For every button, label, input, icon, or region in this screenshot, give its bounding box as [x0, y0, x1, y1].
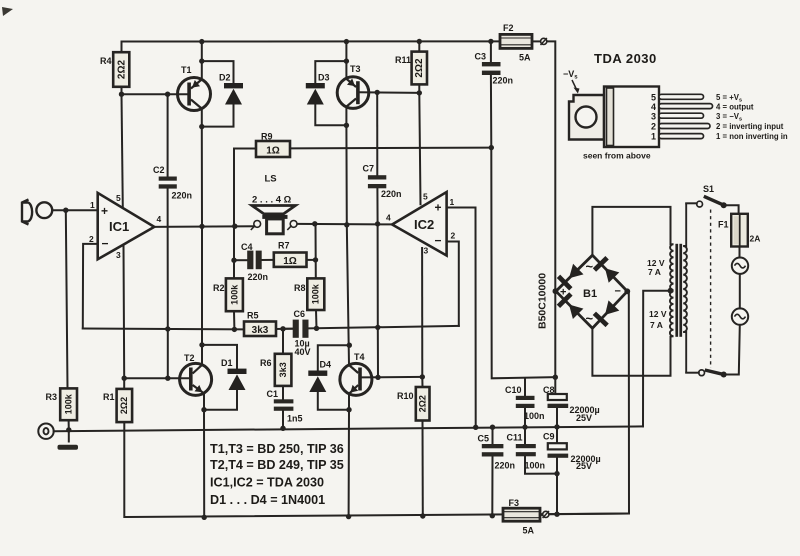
- svg-text:2Ω2: 2Ω2: [119, 397, 129, 414]
- svg-text:IC2: IC2: [414, 217, 434, 232]
- svg-text:220n: 220n: [172, 191, 193, 201]
- svg-text:~: ~: [586, 259, 594, 274]
- svg-text:25V: 25V: [576, 461, 592, 471]
- svg-text:7 A: 7 A: [648, 267, 661, 277]
- svg-text:4: 4: [157, 214, 162, 224]
- svg-text:3k3: 3k3: [278, 362, 288, 377]
- svg-text:2 . . . 4 Ω: 2 . . . 4 Ω: [252, 195, 292, 206]
- svg-text:7 A: 7 A: [650, 320, 663, 330]
- svg-text:4: 4: [651, 102, 656, 112]
- svg-text:D1: D1: [221, 358, 233, 368]
- svg-text:2Ω2: 2Ω2: [414, 58, 425, 78]
- svg-text:2: 2: [89, 234, 94, 244]
- svg-text:C9: C9: [543, 432, 555, 442]
- svg-text:3: 3: [424, 246, 429, 256]
- svg-text:R1: R1: [103, 392, 115, 402]
- svg-text:1: 1: [651, 132, 656, 142]
- svg-text:+: +: [560, 287, 566, 299]
- svg-text:−: −: [615, 286, 621, 298]
- svg-text:2 = inverting input: 2 = inverting input: [716, 122, 784, 131]
- svg-text:R8: R8: [294, 283, 306, 293]
- svg-text:5A: 5A: [519, 53, 531, 63]
- svg-text:+: +: [101, 204, 108, 218]
- svg-text:B1: B1: [583, 288, 597, 300]
- svg-text:−: −: [435, 234, 442, 248]
- svg-text:2A: 2A: [750, 234, 761, 244]
- svg-text:5A: 5A: [523, 526, 535, 536]
- svg-text:R3: R3: [46, 392, 58, 402]
- svg-text:3: 3: [651, 112, 656, 122]
- svg-text:220n: 220n: [493, 76, 514, 86]
- svg-text:S1: S1: [703, 184, 714, 194]
- svg-text:C8: C8: [543, 385, 555, 395]
- svg-text:T3: T3: [350, 64, 361, 74]
- svg-text:T1,T3 = BD 250, TIP 36: T1,T3 = BD 250, TIP 36: [210, 442, 344, 456]
- svg-text:~: ~: [586, 311, 594, 326]
- svg-text:40V: 40V: [295, 347, 311, 357]
- svg-text:C4: C4: [241, 242, 253, 252]
- svg-text:5: 5: [423, 192, 428, 202]
- svg-text:5: 5: [116, 193, 121, 203]
- svg-text:R10: R10: [397, 391, 414, 401]
- svg-text:R6: R6: [260, 358, 272, 368]
- svg-text:2: 2: [651, 122, 656, 132]
- svg-text:100n: 100n: [525, 461, 546, 471]
- svg-text:220n: 220n: [381, 189, 402, 199]
- svg-text:5: 5: [651, 93, 656, 103]
- svg-text:C7: C7: [363, 164, 375, 174]
- svg-text:C11: C11: [507, 433, 523, 443]
- svg-text:D2: D2: [219, 73, 231, 83]
- svg-text:C6: C6: [294, 309, 306, 319]
- svg-text:3k3: 3k3: [252, 325, 269, 336]
- svg-text:2: 2: [451, 231, 456, 241]
- svg-text:C3: C3: [475, 52, 487, 62]
- svg-text:2Ω2: 2Ω2: [417, 395, 427, 412]
- svg-text:TDA 2030: TDA 2030: [594, 51, 657, 66]
- svg-text:1: 1: [450, 197, 455, 207]
- svg-text:12 V: 12 V: [649, 309, 667, 319]
- svg-text:220n: 220n: [495, 461, 516, 471]
- svg-text:R2: R2: [213, 283, 225, 293]
- svg-text:4 = output: 4 = output: [716, 103, 754, 112]
- svg-text:−: −: [102, 237, 109, 251]
- svg-text:T2: T2: [184, 353, 195, 363]
- svg-text:1 = non inverting in: 1 = non inverting in: [716, 132, 788, 141]
- svg-text:F1: F1: [718, 220, 729, 230]
- svg-text:R4: R4: [100, 56, 112, 66]
- svg-text:LS: LS: [265, 174, 277, 185]
- svg-text:4: 4: [386, 213, 391, 223]
- svg-text:1Ω: 1Ω: [266, 146, 280, 157]
- svg-text:F3: F3: [509, 498, 520, 508]
- svg-text:B50C10000: B50C10000: [537, 273, 549, 329]
- svg-text:3: 3: [116, 250, 121, 260]
- svg-text:T1: T1: [181, 65, 192, 75]
- svg-text:100k: 100k: [64, 393, 74, 414]
- svg-text:C5: C5: [478, 434, 490, 444]
- svg-text:100k: 100k: [229, 284, 239, 305]
- svg-text:3 = −Vs: 3 = −Vs: [716, 112, 742, 123]
- svg-text:1Ω: 1Ω: [283, 256, 297, 267]
- svg-text:1: 1: [90, 200, 95, 210]
- svg-text:220n: 220n: [248, 272, 269, 282]
- svg-text:C1: C1: [267, 389, 279, 399]
- svg-text:IC1: IC1: [109, 219, 129, 234]
- svg-text:+: +: [435, 201, 442, 215]
- svg-text:T2,T4 = BD 249, TIP 35: T2,T4 = BD 249, TIP 35: [210, 458, 344, 472]
- svg-text:R11: R11: [395, 55, 411, 65]
- svg-text:seen from above: seen from above: [583, 151, 651, 161]
- svg-text:100n: 100n: [524, 411, 545, 421]
- svg-text:2Ω2: 2Ω2: [116, 59, 127, 79]
- svg-text:IC1,IC2 = TDA 2030: IC1,IC2 = TDA 2030: [210, 476, 324, 490]
- svg-text:D3: D3: [318, 73, 330, 83]
- svg-text:R5: R5: [247, 311, 259, 321]
- svg-text:R7: R7: [278, 241, 290, 251]
- svg-text:25V: 25V: [576, 413, 592, 423]
- svg-text:C10: C10: [505, 385, 522, 395]
- svg-text:1n5: 1n5: [287, 414, 303, 424]
- svg-text:F2: F2: [503, 23, 514, 33]
- svg-text:C2: C2: [153, 165, 165, 175]
- svg-text:D4: D4: [320, 360, 332, 370]
- svg-text:D1 . . . D4 = 1N4001: D1 . . . D4 = 1N4001: [210, 493, 325, 507]
- svg-text:T4: T4: [354, 352, 365, 362]
- svg-text:R9: R9: [261, 132, 273, 142]
- svg-text:100k: 100k: [311, 283, 321, 304]
